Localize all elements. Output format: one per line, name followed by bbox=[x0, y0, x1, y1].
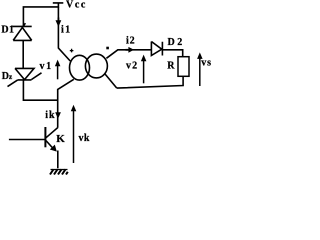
current arrow i1 bbox=[56, 18, 62, 27]
transformer primary winding bbox=[70, 55, 90, 80]
svg-text:D1: D1 bbox=[1, 24, 14, 35]
svg-text:v2: v2 bbox=[126, 61, 138, 72]
diode D1 bbox=[13, 23, 32, 40]
polarity dot primary bbox=[70, 49, 74, 53]
transistor K bbox=[44, 127, 46, 147]
wire top rail bbox=[23, 7, 58, 27]
voltage arrow vs bbox=[197, 52, 203, 86]
zener diode Dz bbox=[8, 68, 42, 86]
transformer secondary winding bbox=[85, 54, 107, 78]
svg-text:Vcc: Vcc bbox=[66, 0, 87, 11]
wire D1 to Dz bbox=[22, 40, 24, 68]
wire D2 to resistor bbox=[162, 50, 182, 57]
svg-text:i1: i1 bbox=[61, 24, 72, 35]
wire secondary bottom bbox=[105, 74, 117, 89]
resistor R bbox=[178, 57, 189, 77]
wire secondary top bbox=[106, 50, 151, 59]
wire primary stem bbox=[58, 7, 70, 61]
svg-text:D 2: D 2 bbox=[168, 37, 183, 48]
voltage arrow v1 bbox=[55, 60, 61, 80]
Vcc power symbol bbox=[53, 3, 64, 8]
svg-text:R: R bbox=[167, 60, 175, 71]
svg-text:i2: i2 bbox=[126, 36, 135, 47]
emitter arrowhead of K bbox=[50, 145, 57, 152]
current arrow ik bbox=[55, 112, 61, 119]
svg-text:K: K bbox=[56, 133, 65, 145]
wire Dz to collector node bbox=[23, 80, 57, 100]
voltage arrow v2 bbox=[141, 55, 147, 84]
svg-text:v1: v1 bbox=[40, 61, 53, 72]
wire resistor bottom bbox=[117, 76, 183, 88]
svg-text:Dz: Dz bbox=[2, 71, 13, 82]
polarity dot secondary bbox=[106, 47, 109, 50]
current arrow i2 bbox=[126, 47, 135, 53]
voltage arrow vk bbox=[71, 105, 77, 163]
wire primary bottom bbox=[58, 79, 74, 127]
svg-text:vk: vk bbox=[79, 133, 90, 144]
svg-text:vs: vs bbox=[201, 57, 212, 68]
wire emitter bbox=[57, 151, 59, 169]
svg-text:ik: ik bbox=[45, 110, 55, 121]
ground bbox=[50, 169, 68, 174]
wire base bbox=[9, 139, 46, 141]
diode D2 bbox=[151, 42, 162, 56]
